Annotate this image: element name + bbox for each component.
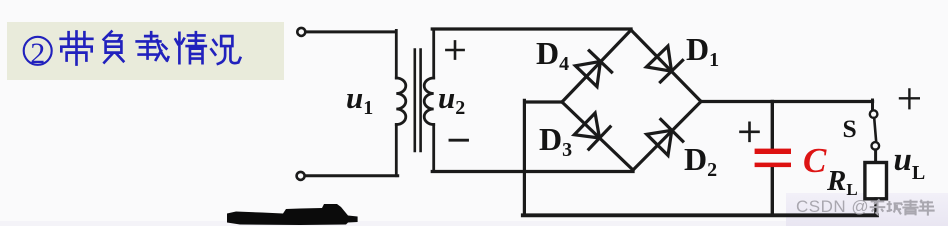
wire primary bottom vertical xyxy=(395,125,398,176)
wire bridge bottom-right branch xyxy=(633,102,701,171)
title box xyxy=(7,22,284,80)
switch S blade xyxy=(874,118,876,142)
wire resistor bottom lead xyxy=(874,199,877,216)
diode D3 xyxy=(574,113,610,149)
wire secondary top rail xyxy=(432,27,631,30)
title char zai xyxy=(137,32,169,60)
plus sign capacitor xyxy=(741,123,759,141)
bottom edge tint strip xyxy=(0,221,948,226)
watermark CSDN text xyxy=(796,197,869,217)
title char qing xyxy=(175,32,205,63)
wire capacitor bottom lead xyxy=(771,167,774,215)
label uL xyxy=(894,142,926,185)
label S xyxy=(843,114,857,144)
transformer core xyxy=(415,50,421,152)
label D4 xyxy=(536,35,569,76)
nian xyxy=(918,200,934,216)
wire secondary bottom vertical xyxy=(432,125,435,172)
watermark plate xyxy=(786,193,948,226)
diode D4 xyxy=(575,51,611,87)
inductor secondary winding L2 xyxy=(424,78,434,125)
diode D1 xyxy=(646,46,682,82)
wire primary bottom xyxy=(306,174,398,177)
label u2 xyxy=(438,80,465,120)
label D3 xyxy=(539,121,572,162)
wire primary top xyxy=(307,30,396,33)
label RL xyxy=(827,165,858,200)
title char fu xyxy=(104,32,124,63)
switch S terminal bottom xyxy=(872,142,880,150)
wire capacitor top lead xyxy=(771,102,774,149)
wire switch to resistor xyxy=(874,150,877,163)
wire secondary top vertical xyxy=(432,29,435,78)
label D2 xyxy=(684,141,717,182)
resistor RL body xyxy=(865,163,887,199)
inductor primary winding L1 xyxy=(396,78,406,125)
black redaction blob xyxy=(227,204,358,225)
minus sign secondary xyxy=(450,139,468,142)
wire switch drop xyxy=(871,100,874,110)
title text: circled 2 xyxy=(24,37,52,65)
diode D2 xyxy=(647,119,683,155)
wire bridge top-right branch xyxy=(631,30,701,102)
label C xyxy=(803,141,826,181)
dong xyxy=(870,199,886,214)
wire secondary bottom rail to bridge xyxy=(432,170,633,173)
wire bridge negative output xyxy=(524,100,562,215)
label D1 xyxy=(686,31,719,72)
plus sign secondary xyxy=(446,41,463,58)
wire bridge positive rail xyxy=(701,100,873,103)
wire bridge top-left branch xyxy=(562,30,631,102)
title char kuang xyxy=(211,36,240,64)
switch S terminal top xyxy=(870,110,878,118)
qing xyxy=(902,200,918,216)
label u1 xyxy=(346,80,373,120)
watermark CJK: dong cheng qing nian xyxy=(870,199,935,215)
terminal top-left xyxy=(297,28,305,36)
wire bridge bottom-left branch xyxy=(562,102,633,170)
title char dai xyxy=(61,32,93,65)
capacitor C plates xyxy=(755,149,791,168)
cheng xyxy=(887,201,903,214)
plus sign output xyxy=(900,89,919,108)
wire bottom rail xyxy=(523,213,877,217)
wire primary top vertical xyxy=(395,30,398,78)
terminal bottom-left xyxy=(297,172,305,180)
